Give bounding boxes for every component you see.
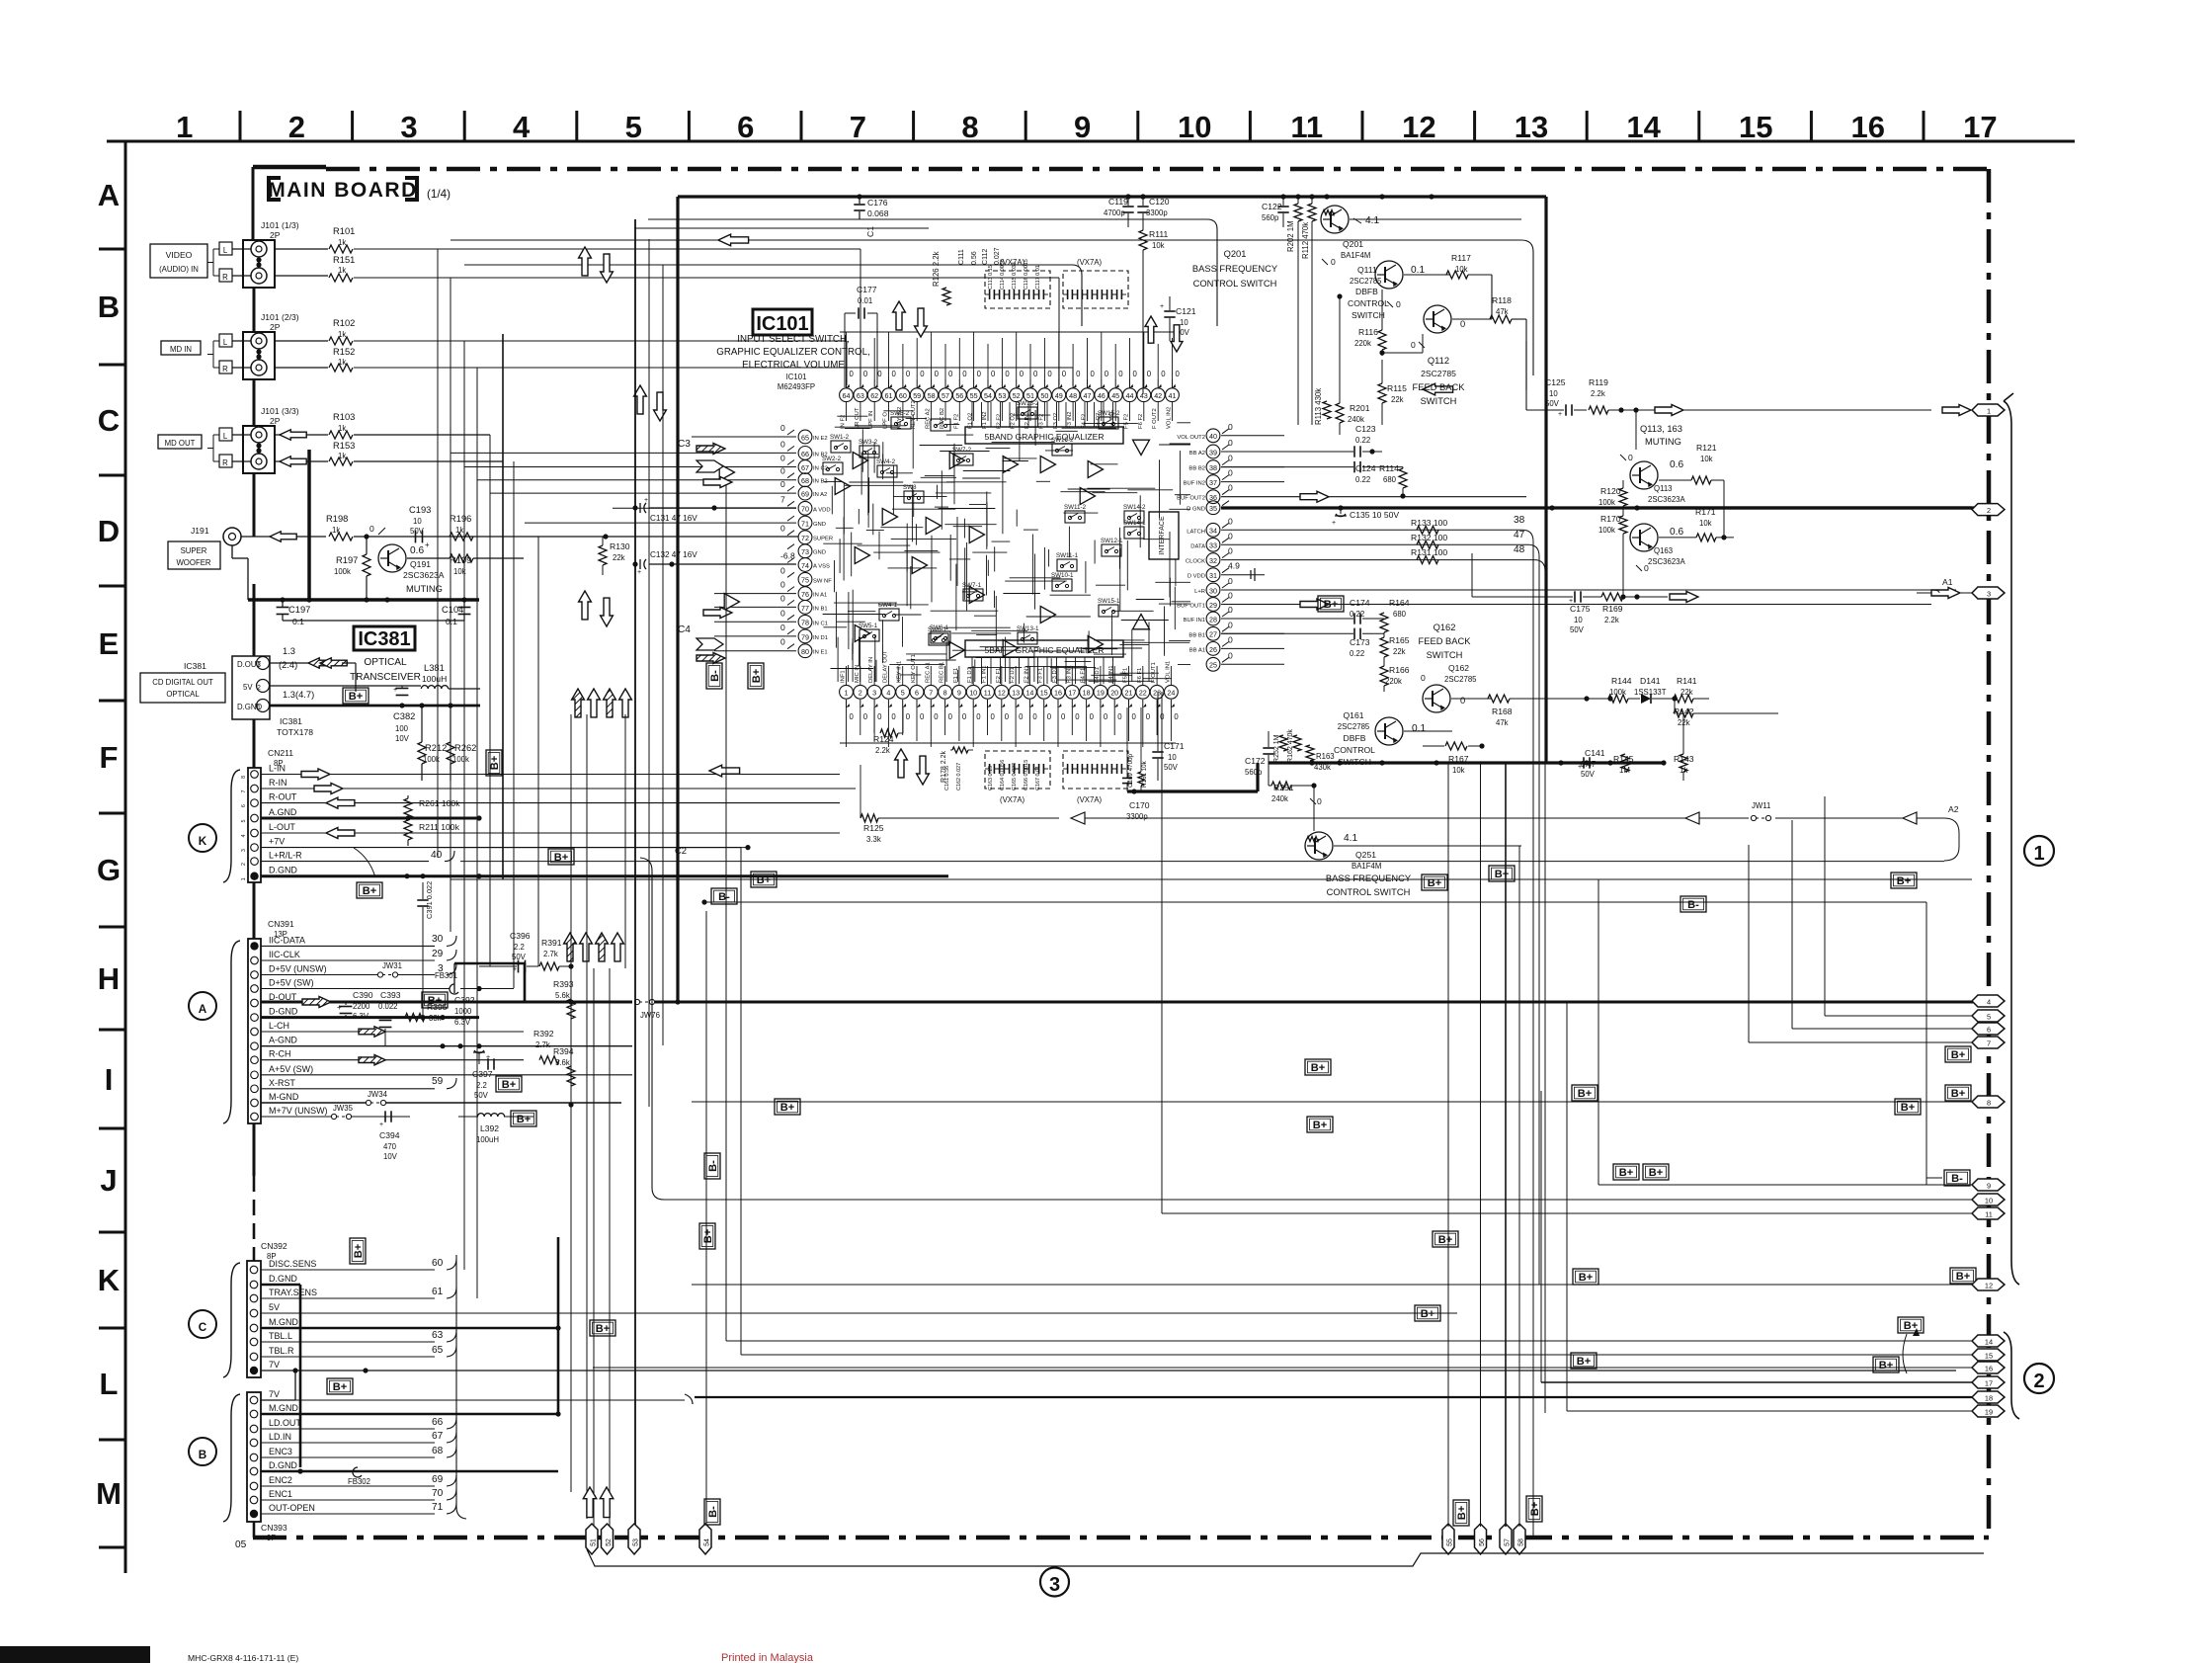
svg-text:C116 0.0015: C116 0.0015 [1024,259,1029,290]
svg-text:F3 F1: F3 F1 [1038,668,1044,683]
svg-text:0: 0 [1104,712,1108,721]
svg-text:100k: 100k [1598,526,1615,535]
power B+ CN392 area right [1415,1305,1440,1321]
svg-text:5: 5 [241,819,247,822]
svg-text:0: 0 [920,712,925,721]
svg-text:CONTROL SWITCH: CONTROL SWITCH [1193,279,1277,289]
svg-text:45: 45 [1111,392,1119,400]
svg-text:C390: C390 [353,990,373,1000]
resistor R196 1k [450,514,473,540]
transistor Q111 2SC2785 [1348,261,1450,320]
svg-text:0: 0 [976,712,981,721]
svg-text:+: + [1332,520,1336,527]
resistor R198 1k [326,514,353,540]
svg-text:C104: C104 [442,605,463,615]
svg-text:38: 38 [1209,464,1217,472]
edge connector 9 [1972,1179,2005,1191]
wire to edge conn 1 [1608,405,1971,416]
resistor R165 22k [1380,632,1410,660]
svg-text:MUTING: MUTING [1645,437,1681,447]
svg-text:3: 3 [400,110,417,144]
resistor R124 2.2k [873,707,903,755]
edge connector 8 [1972,1096,2005,1108]
label 0 above Q113 [1620,453,1633,462]
wire long y=1300 to 12 [692,1284,1972,1286]
wire vertical x=520 gray [513,461,515,988]
svg-text:0.6: 0.6 [410,545,424,556]
svg-text:0.1: 0.1 [292,617,304,626]
resistor R212 100k [418,706,447,781]
wire long y=1428 to 19 [1567,1002,1972,1411]
power B+ y=891 far right [1891,873,1917,888]
arrow up down pair x=600 y=600 [579,591,614,626]
svg-text:C4: C4 [678,624,691,635]
svg-text:TBL.R: TBL.R [269,1346,294,1356]
power B+ row I b [1305,1059,1331,1075]
svg-text:0: 0 [891,712,896,721]
svg-text:REC B2: REC B2 [940,408,945,429]
svg-text:B: B [199,1449,206,1461]
svg-text:M-GND: M-GND [269,1092,299,1102]
svg-text:6: 6 [1987,1025,1991,1034]
svg-text:SUPER: SUPER [181,546,207,555]
svg-text:0.6: 0.6 [1670,527,1683,538]
svg-text:2SC2785: 2SC2785 [1350,277,1382,286]
label 0 Q251 [1310,796,1322,806]
svg-text:FB302: FB302 [348,1477,370,1486]
svg-text:B+: B+ [1951,1049,1966,1061]
svg-text:B+: B+ [1951,1088,1966,1100]
power B- rotated bottom x=721 [704,1499,720,1525]
label MD IN [161,341,201,355]
B+ rotated mid [748,663,764,689]
svg-text:5V: 5V [269,1302,280,1312]
brace CN211 [223,770,240,882]
label IC381 TOTX178 [277,716,313,737]
resistor R161 10k rotated [1138,707,1148,791]
svg-text:100k: 100k [1598,498,1615,507]
capacitor C396 2.2 50V [479,931,538,973]
wire bus y=268 [464,265,1082,326]
svg-text:56: 56 [955,392,963,400]
svg-text:72: 72 [801,535,809,542]
wire C2 bus [640,846,687,1200]
capacitor C392 1000 6.3V [454,995,475,1027]
wire LD.IN 67 [261,1431,456,1443]
svg-text:0: 0 [780,466,785,476]
svg-text:0: 0 [1176,370,1181,378]
svg-text:5.6k: 5.6k [555,991,570,1000]
svg-text:50V: 50V [1570,625,1585,634]
EQ box upper pin stubs [972,402,1113,427]
arrow cluster C3 [678,439,732,488]
svg-text:16: 16 [1851,110,1885,144]
svg-text:R178 2.2k: R178 2.2k [941,751,947,783]
footer black bar [0,1646,150,1663]
svg-text:Q113, 163: Q113, 163 [1640,424,1682,434]
power B+ below CN211 [357,882,382,898]
wire long y=1384 to 16 [593,1313,1972,1368]
label OPTICAL TRANSCEIVER [350,657,421,683]
svg-text:5: 5 [625,110,642,144]
label 2 circled [2024,1364,2054,1393]
svg-text:R153: R153 [333,441,355,451]
svg-text:C112: C112 [982,249,989,265]
svg-text:10k: 10k [1699,519,1712,528]
wire to edge conn 2 thick [1221,197,1552,508]
svg-text:10: 10 [1180,318,1188,327]
svg-text:INPUT SELECT SWITCH,: INPUT SELECT SWITCH, [737,334,849,345]
svg-text:42: 42 [1154,392,1162,400]
svg-text:0: 0 [1033,370,1038,378]
wire D GND pin35 thick [1221,505,1989,510]
svg-text:70: 70 [432,1488,444,1499]
svg-text:0: 0 [948,712,953,721]
wire bus y=281 [477,277,1057,279]
svg-text:60: 60 [899,392,907,400]
svg-text:B+: B+ [554,852,569,864]
arrow left on C1 bus [718,234,749,246]
svg-text:0: 0 [1032,712,1037,721]
power B+ row H [1572,1085,1598,1101]
svg-text:55: 55 [1447,1538,1454,1546]
svg-text:BUF OUT2: BUF OUT2 [1177,496,1205,502]
svg-text:C121: C121 [1176,306,1196,316]
capacitor C132 47 16V [632,550,796,576]
svg-text:C176: C176 [867,198,888,208]
svg-text:58: 58 [1518,1538,1525,1546]
svg-text:0: 0 [1076,370,1081,378]
svg-text:BUF IN1: BUF IN1 [1184,618,1205,624]
svg-text:SW14-1: SW14-1 [1123,520,1146,527]
resistor R178 2.2k rotated [941,747,973,783]
wire A2 line [1393,804,1959,861]
svg-text:C141: C141 [1585,748,1605,758]
svg-text:100k: 100k [334,567,351,576]
svg-text:R144: R144 [1611,676,1632,686]
svg-text:C: C [98,403,120,438]
svg-text:R: R [222,365,228,374]
resistor R392 2.7k [533,1029,559,1064]
svg-text:4: 4 [1987,997,1991,1006]
ground rail y=607 [248,597,479,602]
svg-text:SWITCH: SWITCH [1352,310,1385,320]
label MD OUT [158,435,202,449]
svg-text:C125: C125 [1545,377,1566,387]
svg-text:73: 73 [801,548,809,556]
svg-text:IIC-CLK: IIC-CLK [269,950,300,959]
svg-text:49: 49 [1055,392,1063,400]
label 1.3(4.7) [283,690,314,700]
svg-text:50V: 50V [1164,763,1179,772]
power B+ scattered c [1613,1164,1639,1180]
resistor R169 2.2k [1472,553,1668,624]
power B+ rotated above 58 [1526,1496,1542,1522]
label 0 below Q111 [1387,299,1401,309]
resistor R163 430k [1306,745,1335,772]
svg-text:4700p: 4700p [1104,208,1125,217]
edge connector 3 [1768,587,2005,600]
connector CN393 9P [247,1389,315,1522]
wire vertical x=443 [437,249,439,858]
power B+ below CN392 [327,1378,353,1394]
power B- right edge [1944,1170,1970,1186]
svg-text:SW11-2: SW11-2 [1064,504,1087,511]
svg-text:54: 54 [984,392,992,400]
svg-text:Q201: Q201 [1224,249,1247,259]
wire vertical x=617 to 52 [609,968,611,1527]
svg-text:0: 0 [1005,370,1010,378]
capacitor C119 4700p [1104,194,1134,227]
capacitor C197 0.1 [277,600,311,626]
svg-text:15: 15 [1040,690,1048,698]
svg-text:2P: 2P [270,322,281,332]
svg-text:10: 10 [969,690,977,698]
power B+ row I right [1895,1099,1921,1115]
IC101 right pin stub wires [1221,436,1284,665]
svg-text:3.3k: 3.3k [866,835,881,844]
svg-text:0: 0 [962,712,967,721]
edge connector 2 [1972,504,2005,516]
svg-text:R112 470k: R112 470k [1301,222,1310,259]
wire long y=1115 to 8 [692,1101,1972,1103]
svg-text:C117 0.01: C117 0.01 [1035,265,1041,290]
svg-text:6: 6 [915,690,919,698]
svg-text:0: 0 [1396,299,1401,309]
capacitor C172 560p [1245,731,1274,777]
svg-text:0.22: 0.22 [1355,436,1370,445]
triangle left A2 b [1903,812,1917,824]
cap labels above VX7A upper [988,259,1041,290]
svg-text:R164: R164 [1389,598,1410,608]
svg-text:3300p: 3300p [1126,812,1148,821]
resistor R211 100k [404,820,460,846]
svg-text:BA1F4M: BA1F4M [1352,862,1381,871]
svg-text:F2 D1: F2 D1 [1010,667,1016,683]
svg-text:B+: B+ [1529,1501,1541,1516]
power B+ row I [775,1099,800,1115]
svg-text:59: 59 [913,392,921,400]
label IC381 box [354,626,415,650]
wire CN211 L-IN [261,769,840,780]
svg-text:71: 71 [432,1502,444,1513]
svg-text:KEY OUT2: KEY OUT2 [911,400,917,429]
arrow left below IC [709,765,740,777]
svg-text:29: 29 [432,949,444,959]
IC101 interior switches [822,400,1146,645]
svg-text:C177: C177 [857,285,877,294]
resistor R144 100k [1608,676,1632,703]
capacitor C120 3300p [1137,194,1169,227]
capacitor C125 10 50V [1526,341,1587,418]
power B+ rotated x=500 y=772 [486,750,502,776]
svg-text:46: 46 [1098,392,1106,400]
svg-text:Q251: Q251 [1355,850,1376,860]
svg-text:2.2k: 2.2k [1591,389,1605,398]
wire CN391 spine [253,882,256,1261]
edge connector 11 [1972,1207,2005,1219]
svg-text:R163: R163 [1316,752,1335,761]
capacitor C121 10 50V [1160,296,1196,341]
label VIDEO (AUDIO) IN [150,244,207,278]
svg-text:C393: C393 [380,990,401,1000]
svg-text:71: 71 [801,521,809,529]
svg-text:0.22: 0.22 [1350,649,1364,658]
capacitor C131 47 16V [632,497,796,523]
wire L-CH [261,1027,524,1037]
svg-text:L381: L381 [424,663,445,673]
power B+ x=716 J row [699,1223,715,1249]
svg-text:B+: B+ [517,1114,532,1125]
wire 7V long [261,1368,1956,1372]
svg-text:0.022: 0.022 [378,1002,398,1011]
svg-text:0.6: 0.6 [1670,459,1683,470]
svg-text:2SC3623A: 2SC3623A [1648,495,1686,504]
svg-text:16: 16 [1985,1364,1993,1372]
svg-text:C166 0.0015: C166 0.0015 [1024,760,1029,790]
svg-text:10: 10 [413,517,422,526]
svg-text:DISC.SENS: DISC.SENS [269,1259,316,1269]
svg-text:Q112: Q112 [1428,356,1449,366]
brace right edge 14-19 [2004,1332,2019,1419]
wire M-GND with JW34 [261,1090,621,1106]
capacitor C177 0.01 [845,285,877,387]
svg-text:0: 0 [1228,634,1233,644]
svg-text:B+: B+ [1619,1167,1634,1179]
svg-text:31: 31 [1209,572,1217,580]
wire D.GND CN393 thick with FB302 [261,1467,558,1486]
svg-text:12: 12 [1985,1281,1993,1289]
svg-text:5V: 5V [243,683,253,692]
svg-text:21: 21 [1125,690,1133,698]
svg-text:7V: 7V [269,1360,280,1370]
svg-text:2SC2785: 2SC2785 [1421,369,1456,378]
left ruler ticks [99,249,125,1547]
svg-text:R: R [222,273,228,282]
svg-text:IC101: IC101 [786,373,807,381]
svg-text:F1 IN1: F1 IN1 [982,665,988,683]
edge connector 18 [1972,1391,2005,1403]
power B+ row G mid [0,0,1,1]
svg-text:0: 0 [850,712,855,721]
svg-text:57: 57 [1505,1538,1512,1546]
svg-text:M.GND: M.GND [269,1317,298,1327]
wire Q112 base [1382,334,1423,353]
resistor R251 240k [1269,763,1317,803]
svg-text:9: 9 [1074,110,1091,144]
svg-text:B+: B+ [780,1102,795,1114]
power B+ C397 [496,1076,522,1092]
svg-text:2.7k: 2.7k [543,950,558,958]
wire D.GND CN392 thick [261,1285,300,1467]
wire DISC.SENS 60 [261,1258,456,1270]
caps inside VX7A lower [985,764,1126,774]
transistor Q163 [1630,524,1686,566]
resistor R133 100 on LATCH [1221,518,1512,534]
svg-text:0: 0 [1228,546,1233,556]
capacitor C390 2200 6.3V [337,990,373,1021]
svg-text:(VX7A): (VX7A) [1077,795,1103,804]
svg-text:B+: B+ [333,1381,348,1393]
svg-text:+: + [637,569,641,576]
svg-text:48: 48 [1069,392,1077,400]
svg-text:R125: R125 [863,823,884,833]
svg-text:J101 (2/3): J101 (2/3) [261,312,299,322]
power B+ y=890 mid [751,872,777,887]
resistor R393 5.6k [553,963,575,1019]
text Q112 FEED BACK SWITCH [1413,356,1466,406]
svg-text:CN211: CN211 [268,748,293,758]
wire thick bus y=772 mid [1269,760,1667,765]
connector J101(3/3) MD OUT jacks [207,406,299,473]
svg-text:3: 3 [241,849,247,852]
svg-text:C115 0.033: C115 0.033 [1012,262,1018,290]
svg-text:C175: C175 [1570,604,1591,614]
capacitor C124 0.22 [1221,461,1403,484]
svg-text:B+: B+ [1577,1356,1592,1368]
svg-text:2: 2 [859,690,862,698]
power B+ mid 12 line [1573,1269,1598,1285]
svg-text:FEED BACK: FEED BACK [1419,636,1472,646]
svg-text:C396: C396 [510,931,531,941]
svg-text:63: 63 [432,1330,444,1341]
dashed box VX7A lower right [1063,751,1128,804]
svg-text:R116: R116 [1358,327,1378,337]
svg-text:4: 4 [886,690,890,698]
svg-text:LD.IN: LD.IN [269,1432,291,1442]
svg-text:3: 3 [1049,1574,1060,1596]
resistor R119 2.2k [1589,377,1639,450]
svg-text:SW NF: SW NF [813,578,832,584]
svg-text:58: 58 [928,392,936,400]
svg-text:D VDD: D VDD [1188,574,1205,580]
svg-text:680: 680 [1383,475,1397,484]
svg-text:D.GND: D.GND [269,1274,297,1284]
svg-text:55: 55 [970,392,978,400]
junction super woofer [364,524,385,540]
svg-text:3: 3 [1987,589,1991,598]
svg-text:54: 54 [704,1538,711,1546]
svg-text:0: 0 [1644,563,1649,573]
wire CN211 R-IN [261,784,856,794]
wire BUF OUT2 pin36 [1221,491,1526,502]
svg-text:VOL IN1: VOL IN1 [1165,661,1171,683]
svg-text:Q163: Q163 [1654,546,1673,555]
svg-text:0: 0 [892,370,897,378]
edge connector 58 [1514,1524,1525,1554]
svg-text:SW14-2: SW14-2 [1123,504,1146,511]
wire top bus corner down x=1565 [1544,197,1547,763]
label 0 below Q201 [1322,257,1336,267]
svg-text:B+: B+ [1897,875,1912,887]
resistor R151 1k [275,255,1059,385]
svg-text:B+: B+ [1421,1308,1435,1320]
svg-text:0: 0 [780,593,785,603]
resistor R112 470k rotated [1301,197,1316,425]
svg-text:0: 0 [1228,591,1233,601]
svg-text:0.068: 0.068 [867,208,889,218]
wire vertical x=496 [489,435,491,966]
resistor R116 220k [1354,290,1386,356]
svg-text:0: 0 [1061,712,1066,721]
svg-text:0: 0 [1062,370,1067,378]
svg-text:M62493FP: M62493FP [778,382,815,391]
svg-text:4.1: 4.1 [1365,215,1379,226]
left ruler line [124,141,127,1573]
svg-text:78: 78 [801,620,809,627]
svg-text:L: L [223,432,228,441]
resistor R168 47k [1488,695,1561,727]
